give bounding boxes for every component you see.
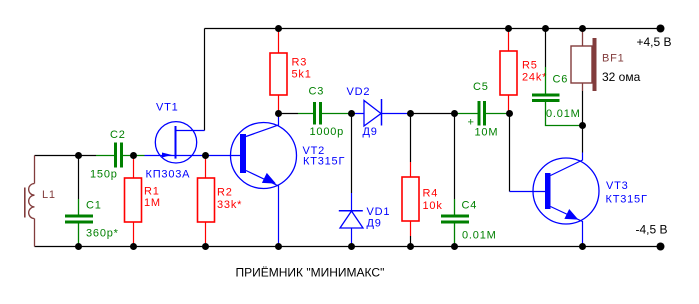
svg-text:VT3: VT3 bbox=[606, 180, 629, 192]
svg-text:C6: C6 bbox=[553, 74, 569, 86]
diode VD2 bbox=[352, 99, 411, 126]
svg-text:VT1: VT1 bbox=[156, 102, 179, 114]
junction dot VD1 bottom bbox=[348, 243, 355, 250]
svg-text:КТ315Г: КТ315Г bbox=[303, 156, 345, 168]
junction dot R4 bottom bbox=[407, 243, 414, 250]
capacitor C4 bbox=[441, 199, 469, 247]
svg-text:1000p: 1000p bbox=[310, 126, 345, 138]
terminal dot -4.5V bbox=[657, 243, 665, 251]
svg-text:C4: C4 bbox=[462, 200, 478, 212]
wire BF1 bottom to VT3 collector node bbox=[582, 91, 584, 153]
svg-text:BF1: BF1 bbox=[602, 53, 625, 65]
junction dot rail C6 bbox=[542, 25, 549, 32]
svg-text:R3: R3 bbox=[292, 57, 308, 69]
junction dot R1 bottom bbox=[130, 243, 137, 250]
svg-text:10k: 10k bbox=[423, 200, 443, 212]
inductor L1 bbox=[25, 156, 35, 247]
wire left drop from rail to VT1 drain bbox=[204, 29, 206, 131]
wire top rail +4.5V bbox=[205, 28, 661, 30]
junction dot VT3 emitter bbox=[579, 243, 586, 250]
svg-text:-4,5 В: -4,5 В bbox=[636, 223, 668, 237]
junction dot C4 bottom bbox=[451, 243, 458, 250]
capacitor C2 bbox=[96, 143, 145, 168]
svg-text:R2: R2 bbox=[217, 187, 233, 199]
svg-text:VD1: VD1 bbox=[367, 206, 391, 218]
resistor R4 bbox=[402, 162, 419, 236]
transistor VT3 bbox=[510, 153, 600, 247]
wire VT2 collector node to C3 bbox=[279, 113, 299, 115]
svg-text:360p*: 360p* bbox=[86, 228, 119, 240]
wire VD1 branch upper bbox=[351, 114, 353, 194]
svg-text:10M: 10M bbox=[475, 126, 499, 138]
svg-text:ПРИЁМНИК "МИНИМАКС": ПРИЁМНИК "МИНИМАКС" bbox=[236, 266, 385, 280]
wire C1 branch upper bbox=[78, 156, 80, 200]
svg-text:1M: 1M bbox=[144, 197, 161, 209]
svg-text:24k*: 24k* bbox=[522, 72, 547, 84]
capacitor C1 bbox=[65, 199, 93, 247]
capacitor C3 bbox=[298, 102, 352, 125]
svg-text:C3: C3 bbox=[309, 86, 325, 98]
junction dot C4 top bbox=[451, 110, 458, 117]
resistor R5 bbox=[500, 29, 517, 114]
junction dot C1 bottom bbox=[75, 243, 82, 250]
svg-text:КТ315Г: КТ315Г bbox=[606, 193, 648, 205]
wire C6 top bbox=[545, 29, 547, 68]
svg-text:КП303А: КП303А bbox=[146, 169, 191, 181]
svg-text:5k1: 5k1 bbox=[292, 69, 312, 81]
svg-text:+4,5 В: +4,5 В bbox=[637, 35, 672, 49]
junction dot C2/R1 bbox=[130, 152, 137, 159]
junction dot R4 top bbox=[407, 110, 414, 117]
junction dot C6/BF1/VT3 collector bbox=[579, 122, 586, 129]
diode VD1 bbox=[339, 193, 363, 247]
wire bottom rail -4.5V bbox=[35, 246, 661, 248]
svg-text:R5: R5 bbox=[522, 60, 538, 72]
svg-text:VD2: VD2 bbox=[347, 86, 371, 98]
junction dot VT2 collector bbox=[275, 110, 282, 117]
wire L1 top to C1/C2 node bbox=[35, 155, 97, 157]
junction dot rail R3 bbox=[275, 25, 282, 32]
resistor R1 bbox=[125, 156, 142, 247]
resistor R2 bbox=[198, 156, 215, 247]
svg-text:C1: C1 bbox=[86, 200, 102, 212]
svg-text:R1: R1 bbox=[144, 186, 160, 198]
junction dot C1 top bbox=[75, 152, 82, 159]
wire C4 branch upper bbox=[454, 114, 456, 200]
junction dot rail BF1 bbox=[579, 25, 586, 32]
svg-text:33k*: 33k* bbox=[217, 199, 242, 211]
svg-text:L1: L1 bbox=[42, 189, 56, 201]
speaker BF1 bbox=[571, 29, 597, 92]
wire VD2 to C5 segment bbox=[411, 113, 459, 115]
svg-text:150p: 150p bbox=[90, 168, 118, 180]
terminal dot +4.5V bbox=[657, 25, 665, 33]
svg-text:Д9: Д9 bbox=[363, 126, 378, 138]
junction dot VT1 source/R2 bbox=[202, 152, 209, 159]
junction dot R2 bottom bbox=[202, 243, 209, 250]
svg-text:C5: C5 bbox=[473, 81, 489, 93]
junction dot VT2 emitter bbox=[275, 243, 282, 250]
svg-text:R4: R4 bbox=[423, 188, 439, 200]
transistor VT1 (FET) bbox=[145, 122, 241, 163]
svg-text:0.01M: 0.01M bbox=[546, 108, 581, 120]
svg-text:32 ома: 32 ома bbox=[602, 70, 641, 84]
capacitor C5 bbox=[458, 101, 510, 126]
transistor VT2 bbox=[231, 114, 297, 247]
resistor R3 bbox=[270, 29, 287, 114]
junction dot rail R5 bbox=[505, 25, 512, 32]
svg-text:C2: C2 bbox=[110, 129, 126, 141]
capacitor C6 bbox=[532, 67, 581, 126]
svg-text:0.01M: 0.01M bbox=[462, 230, 497, 242]
svg-text:Д9: Д9 bbox=[367, 218, 382, 230]
junction dot C5/R5 bbox=[506, 110, 513, 117]
wire R5 node down to VT3 base bbox=[509, 114, 511, 192]
junction dot C3/VD2/VD1 bbox=[348, 110, 355, 117]
wire R4 branch bbox=[410, 114, 412, 247]
